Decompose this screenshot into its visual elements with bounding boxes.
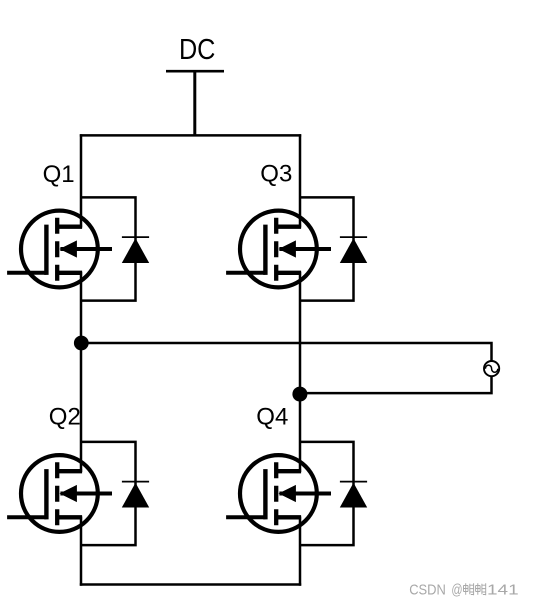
- svg-text:DC: DC: [179, 34, 216, 66]
- svg-text:Q4: Q4: [256, 404, 288, 431]
- svg-text:Q3: Q3: [260, 161, 292, 188]
- svg-text:Q2: Q2: [49, 403, 81, 430]
- svg-text:CSDN: CSDN: [409, 582, 446, 599]
- svg-text:@: @: [451, 582, 462, 599]
- svg-text:141: 141: [487, 582, 519, 599]
- svg-text:Q1: Q1: [43, 161, 75, 188]
